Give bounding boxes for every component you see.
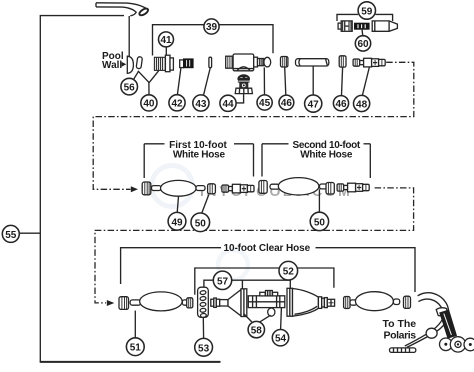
svg-text:White Hose: White Hose bbox=[173, 150, 226, 161]
svg-text:48: 48 bbox=[356, 99, 368, 110]
svg-text:57: 57 bbox=[217, 276, 229, 287]
svg-text:56: 56 bbox=[124, 82, 136, 93]
svg-text:59: 59 bbox=[361, 6, 373, 17]
svg-text:60: 60 bbox=[357, 39, 369, 50]
svg-text:43: 43 bbox=[195, 99, 207, 110]
svg-text:45: 45 bbox=[259, 98, 271, 109]
svg-text:Polaris: Polaris bbox=[384, 330, 417, 342]
svg-text:47: 47 bbox=[308, 100, 320, 111]
svg-text:Wall: Wall bbox=[102, 60, 122, 71]
svg-text:52: 52 bbox=[283, 267, 295, 278]
svg-text:41: 41 bbox=[160, 35, 172, 46]
svg-text:46: 46 bbox=[335, 99, 347, 110]
svg-text:39: 39 bbox=[206, 22, 218, 33]
svg-text:50: 50 bbox=[195, 218, 207, 229]
svg-text:54: 54 bbox=[275, 334, 287, 345]
svg-text:40: 40 bbox=[143, 99, 155, 110]
svg-text:44: 44 bbox=[222, 99, 234, 110]
svg-text:49: 49 bbox=[171, 217, 183, 228]
svg-text:58: 58 bbox=[251, 325, 263, 336]
svg-text:50: 50 bbox=[314, 217, 326, 228]
svg-text:To The: To The bbox=[383, 318, 417, 330]
svg-text:53: 53 bbox=[198, 343, 210, 354]
svg-text:55: 55 bbox=[5, 230, 17, 241]
svg-text:White Hose: White Hose bbox=[300, 150, 353, 161]
svg-text:46: 46 bbox=[281, 98, 293, 109]
svg-text:51: 51 bbox=[130, 343, 142, 354]
svg-text:42: 42 bbox=[171, 99, 183, 110]
svg-text:10-foot Clear Hose: 10-foot Clear Hose bbox=[224, 243, 311, 254]
